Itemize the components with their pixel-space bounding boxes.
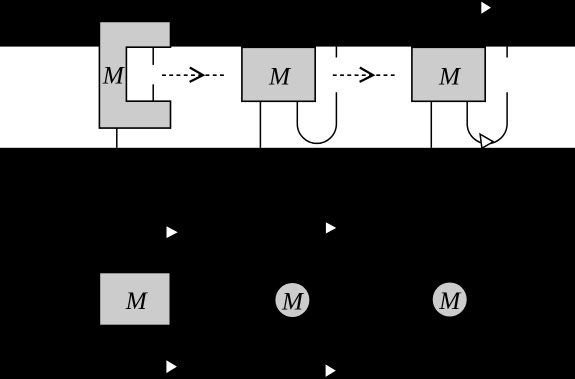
box M2 (diagram 2) <box>242 47 315 101</box>
wire: diagram 1 notch wire upper segment <box>152 47 154 65</box>
wire: diagram 3 cup (right output bending up) <box>467 92 507 143</box>
reduction arrow 2 head <box>360 68 374 82</box>
svg-text:M: M <box>281 289 305 316</box>
node M6 (circle, bottom right) <box>433 283 467 317</box>
wire: diagram 1 bottom output wire <box>116 128 118 148</box>
arrowhead top right (on hidden wire) <box>481 2 491 14</box>
reduction arrow 1 head <box>190 68 204 82</box>
svg-text:M: M <box>102 63 126 90</box>
svg-text:M: M <box>268 64 292 91</box>
box M4 (term rectangle, bottom row) <box>100 273 169 324</box>
wire: diagram 3 left output wire <box>430 101 432 148</box>
node M5 (circle, bottom middle) <box>275 283 309 317</box>
wire: diagram 3 right wire top segment <box>506 47 508 58</box>
wire: diagram 2 left output wire <box>259 101 261 148</box>
white band behind string diagrams <box>0 47 575 148</box>
box M1 (C-shaped monad box, diagram 1) <box>99 21 170 128</box>
arrowhead bottom row 1 right <box>326 222 336 233</box>
svg-text:M: M <box>438 288 462 315</box>
wire: diagram 1 notch wire lower segment <box>152 84 154 101</box>
svg-text:M: M <box>438 64 462 91</box>
arrowhead bottom row 1 left <box>167 226 178 238</box>
box M3 (diagram 3) <box>412 47 485 101</box>
svg-text:M: M <box>125 288 149 315</box>
reduction arrow 1 dashed shaft <box>162 74 225 76</box>
arrowhead bottom row 2 right <box>326 364 336 377</box>
wire: diagram 2 right wire top segment <box>335 47 337 58</box>
wire: diagram 2 cup (right output bending up) <box>297 92 336 143</box>
reduction arrow 2 dashed shaft <box>333 74 395 76</box>
arrowhead bottom row 2 left <box>166 360 177 373</box>
arrowhead marker on diagram 3 cup <box>480 134 493 148</box>
